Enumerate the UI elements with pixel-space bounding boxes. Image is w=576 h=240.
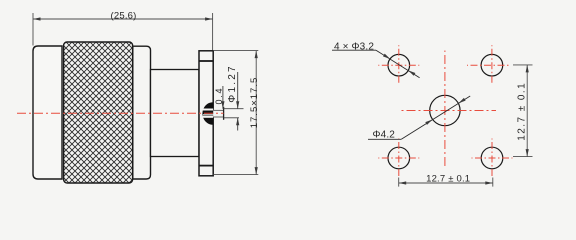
- right dim extension bottom: [513, 156, 533, 158]
- leader 0.4: [222, 86, 224, 109]
- pin top extension line: [224, 108, 244, 110]
- arrow up to pin bottom: [237, 118, 239, 131]
- smooth collar after knurl: [133, 46, 151, 179]
- flange chamfer line top: [199, 60, 213, 62]
- hole top-left: [388, 54, 410, 76]
- hole bottom-left: [388, 147, 410, 169]
- hole top-right: [481, 54, 503, 76]
- red centerline of connector axis: [17, 112, 224, 114]
- label underline: [368, 138, 401, 140]
- flange plate (side): [199, 51, 213, 176]
- crosshair hole bottom-left: [378, 139, 419, 178]
- svg-text:17.5×17.5: 17.5×17.5: [249, 77, 260, 129]
- center pin: [213, 110, 223, 117]
- arrow left of (25.6): [33, 17, 41, 20]
- pin bottom extension line: [224, 117, 239, 119]
- svg-text:12.7 ± 0.1: 12.7 ± 0.1: [517, 82, 528, 141]
- insulator dome: [202, 102, 213, 125]
- extension line left of dim (25.6): [32, 13, 34, 46]
- dimension line 17.5x17.5: [255, 51, 257, 175]
- arrow right of (25.6): [205, 17, 213, 20]
- hole bottom-right: [481, 147, 503, 169]
- svg-text:12.7 ± 0.1: 12.7 ± 0.1: [426, 174, 470, 185]
- label underline: [332, 49, 376, 51]
- pin end face: [223, 107, 225, 120]
- svg-text:0.4: 0.4: [214, 87, 224, 105]
- center hole: [430, 95, 460, 125]
- flange chamfer line bottom: [199, 165, 213, 167]
- extension line 17.5 top: [213, 50, 258, 52]
- knurled body: [64, 42, 133, 183]
- leader 4xPhi3.2: [376, 50, 420, 78]
- crosshair hole top-left: [378, 45, 419, 85]
- bottom dim extension right: [492, 178, 494, 187]
- svg-text:4 × Φ3.2: 4 × Φ3.2: [334, 41, 374, 52]
- dome slit upper: [203, 109, 214, 111]
- svg-text:Φ4.2: Φ4.2: [373, 129, 396, 140]
- dome slit lower: [203, 116, 214, 118]
- rear cylinder: [151, 70, 200, 157]
- crosshair hole bottom-right: [472, 139, 513, 178]
- leader Phi4.2: [401, 96, 470, 139]
- crosshair hole top-right: [467, 45, 511, 85]
- leader phi 1.27: [237, 72, 239, 109]
- right dimension line 12.7: [526, 65, 528, 157]
- extension line right of dim (25.6): [212, 13, 214, 51]
- extension line 17.5 bottom: [213, 174, 258, 176]
- dimension line (25.6): [33, 18, 213, 20]
- coupling nut front body: [33, 46, 62, 179]
- bottom dim extension left: [398, 178, 400, 187]
- crosshair center hole: [399, 51, 496, 168]
- svg-text:(25.6): (25.6): [110, 10, 136, 21]
- bottom dimension line 12.7: [399, 182, 493, 184]
- pin mid gray band: [203, 114, 223, 115]
- svg-text:Φ1.27: Φ1.27: [227, 64, 238, 102]
- right dim extension top: [513, 64, 533, 66]
